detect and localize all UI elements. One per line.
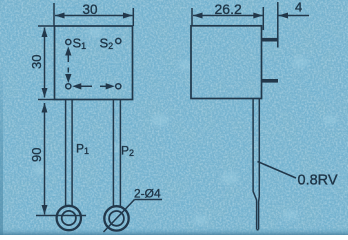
svg-text:30: 30 — [83, 2, 98, 17]
svg-text:2-Ø4: 2-Ø4 — [134, 187, 161, 201]
svg-text:4: 4 — [295, 0, 302, 15]
svg-text:0.8RV: 0.8RV — [298, 173, 338, 189]
svg-text:90: 90 — [29, 148, 44, 162]
svg-text:30: 30 — [29, 55, 44, 69]
svg-text:26.2: 26.2 — [215, 1, 242, 17]
